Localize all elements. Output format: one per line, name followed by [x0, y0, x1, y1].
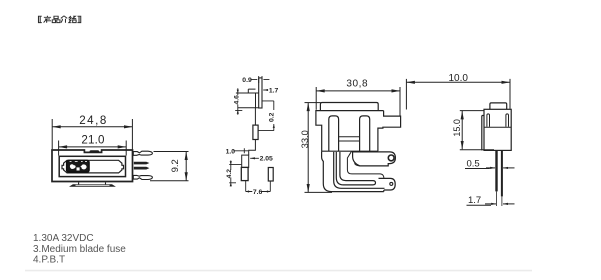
- svg-text:9.2: 9.2: [170, 159, 181, 172]
- svg-text:21.0: 21.0: [81, 134, 104, 147]
- latch bump: [90, 150, 100, 152]
- svg-text:30,8: 30,8: [346, 79, 368, 90]
- left slot: [329, 116, 339, 151]
- svg-text:1.7: 1.7: [269, 87, 279, 94]
- char 介: [61, 16, 67, 23]
- svg-text:1.0: 1.0: [226, 148, 236, 155]
- lower terminal tab: [379, 178, 396, 190]
- blade pin (vertical): [259, 78, 262, 108]
- middle pin a: [134, 162, 150, 165]
- left fin double wall: [482, 116, 484, 151]
- middle pin b: [134, 167, 150, 170]
- connector white marks: [70, 161, 87, 170]
- left clip arm: [487, 114, 490, 127]
- main body outline with right tab and left step: [316, 111, 401, 152]
- lower terminal folded strip: [334, 152, 385, 188]
- upper terminal: [353, 152, 396, 166]
- dim 4.2: [229, 161, 241, 187]
- body: [484, 109, 511, 150]
- title 【产品介绍】 hand-drawn glyphs: [38, 16, 80, 23]
- body outline with latch recess: [52, 150, 133, 182]
- shelf line: [484, 126, 511, 128]
- dimension 10.0: [406, 79, 510, 110]
- pin 2: [501, 150, 503, 196]
- housing leg lower-left: [322, 151, 384, 191]
- pin 1: [495, 150, 497, 191]
- svg-text:1.30A 32VDC: 1.30A 32VDC: [33, 233, 94, 244]
- char 绍: [69, 16, 76, 23]
- upper tab hole: [388, 155, 394, 161]
- dim 0.9: [250, 76, 269, 83]
- dimension 1.7 (pins): [467, 204, 515, 205]
- char 品: [52, 16, 60, 22]
- dim 7.6: [246, 181, 271, 192]
- bottom light rule: [25, 270, 532, 272]
- mounting feet: [69, 184, 116, 187]
- right slot: [360, 116, 370, 151]
- svg-text:7.6: 7.6: [253, 189, 263, 196]
- dimension 24.8: [52, 119, 132, 149]
- dim 1.0: [233, 148, 248, 153]
- dimension 15.0: [460, 111, 494, 150]
- svg-text:4.6: 4.6: [234, 95, 241, 105]
- second pin rect: [268, 168, 273, 182]
- char 产: [44, 16, 51, 23]
- svg-text:0.2: 0.2: [268, 112, 275, 122]
- wire upper: [254, 108, 256, 125]
- dim 4.6: [235, 88, 242, 115]
- dimension 33.0: [305, 103, 333, 193]
- fuse slot octagon: [62, 160, 124, 173]
- connector dark block: [67, 160, 89, 172]
- cap: [490, 103, 507, 109]
- svg-text:33.0: 33.0: [300, 130, 310, 148]
- svg-text:10.0: 10.0: [448, 73, 468, 84]
- upper column: [242, 155, 249, 167]
- dim 2.05 arrow: [250, 157, 259, 159]
- top blade pin: [133, 151, 152, 155]
- pin extension lines: [496, 191, 502, 206]
- svg-text:0.5: 0.5: [467, 158, 480, 169]
- svg-text:0.9: 0.9: [242, 77, 252, 84]
- bracket 【: [38, 16, 41, 22]
- inner rectangle: [59, 156, 125, 176]
- right clip arm: [506, 114, 509, 127]
- bottom spec text: [33, 233, 126, 266]
- crimp rectangle: [253, 125, 258, 139]
- dimension 21.0: [59, 141, 127, 156]
- dimension 30.8: [316, 87, 400, 116]
- svg-text:1.7: 1.7: [468, 195, 481, 206]
- svg-text:4.P.B.T: 4.P.B.T: [33, 255, 65, 266]
- svg-text:3.Medium blade fuse: 3.Medium blade fuse: [33, 244, 126, 255]
- dimension 0.5: [465, 167, 515, 170]
- svg-text:4.2: 4.2: [226, 169, 233, 179]
- svg-text:24,8: 24,8: [79, 114, 108, 127]
- dim 0.2: [258, 101, 274, 131]
- bracket 】: [77, 16, 80, 22]
- top cap: [320, 103, 378, 111]
- bottom blade pin: [133, 175, 152, 179]
- housing top step: [236, 89, 259, 108]
- H crossbar: [339, 137, 360, 141]
- front blade rect: [241, 167, 248, 180]
- wire lower jog: [249, 140, 256, 156]
- lower tab hole: [390, 182, 393, 185]
- dimension 9.2: [150, 152, 189, 181]
- dim 1.7 arrow: [263, 89, 268, 91]
- svg-text:2.05: 2.05: [260, 156, 273, 163]
- inner bend line to lower tab: [347, 151, 384, 178]
- svg-text:15.0: 15.0: [452, 119, 462, 137]
